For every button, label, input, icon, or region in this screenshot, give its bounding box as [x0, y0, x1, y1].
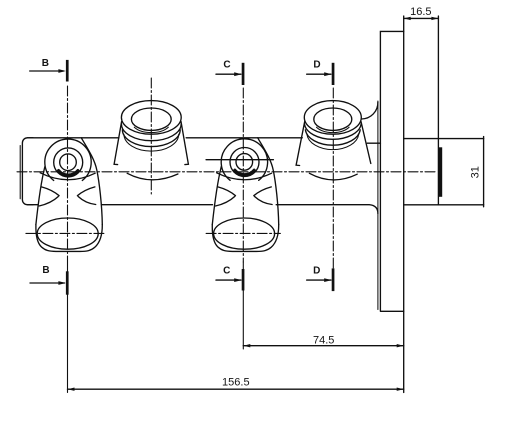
boss D vertical centerline	[332, 88, 334, 291]
svg-text:156.5: 156.5	[222, 377, 250, 389]
outlet boss B butterfly arc lower-left	[39, 197, 58, 207]
section marker C bottom arrowhead	[234, 278, 242, 282]
section marker D top tick	[332, 63, 335, 85]
svg-text:B: B	[42, 58, 49, 69]
cylinder end top edge	[404, 138, 484, 140]
outlet boss C butterfly arc upper-right	[254, 187, 271, 196]
section marker B top arrowhead	[58, 69, 66, 73]
section marker B bottom arrow line	[30, 282, 65, 284]
reservoir boss 1 opening ellipse	[131, 108, 171, 130]
section marker C top arrowhead	[234, 72, 242, 76]
boss C extension line to 74.5	[242, 262, 244, 349]
boss C vertical centerline	[242, 88, 244, 262]
outlet boss C bottom ellipse	[214, 218, 275, 249]
reservoir boss 2 left slant	[296, 122, 305, 166]
reservoir boss 2 opening lip lower arc	[317, 127, 350, 132]
outlet boss B right silhouette	[81, 138, 102, 225]
svg-text:D: D	[313, 59, 320, 70]
outlet boss B bottom outline	[36, 225, 102, 252]
section marker D top arrow line	[307, 73, 331, 75]
outlet boss B butterfly arc upper-left	[42, 187, 60, 196]
reservoir boss 2 fillet to flange	[362, 102, 378, 119]
section marker D bottom tick	[332, 268, 335, 291]
boss B vertical centerline	[67, 86, 69, 262]
outlet boss C butterfly arc upper-left	[218, 187, 236, 196]
section marker C top arrow line	[216, 73, 241, 75]
flange plate	[380, 31, 403, 311]
outlet boss C butterfly arc lower-left	[216, 197, 235, 207]
reservoir boss 1 rim ring arc 1	[121, 124, 181, 141]
barrel left end cap	[22, 138, 33, 205]
section marker D bottom arrow line	[307, 279, 331, 281]
reservoir boss 2 outer rim ellipse	[304, 101, 361, 135]
section marker D bottom arrowhead	[324, 278, 332, 282]
dimension 16.5 line	[404, 17, 439, 19]
dimension 74.5 line	[243, 345, 403, 347]
section marker B bottom arrowhead	[58, 281, 66, 285]
svg-text:B: B	[42, 265, 49, 276]
outlet boss B left silhouette	[36, 167, 45, 225]
reservoir boss 2 right slant	[361, 122, 371, 164]
outlet boss C middle circle thick lower arc	[235, 170, 254, 175]
outlet boss C butterfly arc lower-right	[255, 197, 273, 205]
svg-text:74.5: 74.5	[313, 334, 334, 346]
cylinder right end face	[483, 137, 485, 207]
outlet boss B butterfly arc lower-right	[78, 197, 96, 205]
section marker B top tick	[66, 60, 69, 82]
outlet boss C inner circle	[236, 154, 253, 171]
cap end-face edge line	[19, 146, 21, 199]
outlet boss C cross line	[206, 159, 273, 161]
svg-text:16.5: 16.5	[410, 6, 431, 18]
outlet boss C right silhouette	[258, 138, 279, 225]
barrel bottom edge segment between bosses	[102, 204, 213, 206]
seal thick bar	[439, 147, 443, 197]
plate edge line at 438	[437, 16, 439, 205]
dimension 156.5 left arrowhead	[68, 388, 75, 391]
dimension 156.5 right arrowhead	[397, 388, 404, 391]
section marker B top arrow line	[30, 70, 64, 72]
dimension 156.5 line	[68, 388, 404, 390]
outlet boss C bottom outline	[212, 225, 278, 252]
dimension 16.5 left arrowhead	[404, 17, 411, 20]
outlet boss B outer circle	[45, 139, 91, 180]
shoulder line to flange	[367, 142, 380, 144]
reservoir boss 1 rim ring arc 3	[124, 134, 179, 151]
outlet boss B middle circle thick lower arc	[59, 171, 78, 176]
outlet boss C middle circle	[230, 148, 259, 177]
dimension 16.5 right arrowhead	[431, 17, 438, 20]
reservoir boss 1 opening lip lower arc	[134, 127, 168, 132]
reservoir boss 1 outer rim ellipse	[121, 101, 181, 135]
outlet boss B middle circle	[54, 148, 83, 177]
cylinder end bottom edge	[404, 204, 484, 206]
outlet boss B intersection arc	[40, 173, 95, 180]
boss B extension line to 156.5	[67, 262, 69, 393]
barrel top edge middle segment	[186, 137, 302, 139]
barrel bottom edge segment at cap	[27, 204, 37, 206]
section marker D top arrowhead	[324, 72, 332, 76]
outlet boss C outer circle	[221, 139, 267, 180]
barrel top edge left segment	[27, 137, 119, 139]
barrel bottom edge right segment with fillet into flange	[276, 205, 378, 214]
section marker B bottom tick	[66, 271, 69, 294]
section marker C top tick	[242, 63, 245, 85]
outlet boss C left silhouette	[212, 167, 221, 225]
barrel end faint edge at flange	[377, 101, 379, 310]
svg-text:C: C	[223, 59, 230, 70]
section marker C bottom arrow line	[216, 279, 241, 281]
reservoir boss 1 rim ring arc 2	[122, 130, 180, 147]
reservoir boss 1 vertical centerline	[150, 78, 152, 194]
section marker C bottom tick	[242, 269, 245, 291]
boss B port axis centerline	[26, 232, 105, 234]
reservoir boss 1 intersection arc	[127, 173, 178, 180]
outlet boss C intersection arc	[217, 173, 272, 180]
outlet boss B bottom ellipse	[37, 218, 98, 249]
svg-text:31: 31	[470, 166, 482, 178]
svg-text:C: C	[223, 265, 230, 276]
main axis centerline	[17, 171, 438, 173]
dimension 74.5 left arrowhead	[243, 344, 250, 347]
reservoir boss 2 rim ring arc 3	[307, 134, 359, 149]
reservoir boss 2 rim ring arc 1	[304, 124, 361, 139]
reservoir boss 1 right slant	[181, 122, 188, 165]
flange right edge and dimension extension line	[403, 16, 405, 393]
reservoir boss 2 opening ellipse	[314, 108, 352, 130]
svg-text:D: D	[313, 265, 320, 276]
outlet boss B butterfly arc upper-right	[77, 187, 95, 196]
boss C port axis centerline	[206, 232, 280, 234]
outlet boss B inner circle	[60, 154, 77, 171]
dimension 74.5 right arrowhead	[397, 344, 404, 347]
reservoir boss 1 left slant	[114, 122, 122, 165]
reservoir boss 2 intersection arc	[309, 173, 357, 180]
reservoir boss 2 rim ring arc 2	[305, 130, 360, 145]
